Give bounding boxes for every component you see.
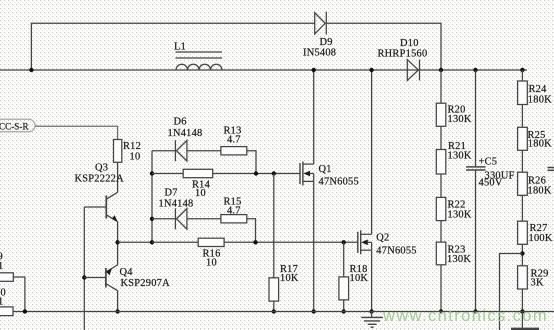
wire R22-R23	[440, 221, 442, 243]
svg-text:1: 1	[0, 297, 3, 308]
resistor R27	[518, 221, 528, 244]
wire Q1 drain to bus	[313, 70, 315, 164]
node R27/R29 feedback junction	[520, 251, 524, 255]
svg-text:130K: 130K	[448, 114, 472, 125]
resistor R26	[518, 172, 528, 195]
node bus / bypass-R20 junction	[439, 68, 443, 72]
wire R20-R21	[440, 126, 442, 149]
svg-text:130K: 130K	[448, 210, 472, 221]
node Q1 drain on bus	[312, 68, 316, 72]
svg-text:450V: 450V	[479, 178, 503, 189]
transistor Q3	[84, 192, 118, 222]
node C5 bottom on bus	[473, 309, 477, 313]
node Q2 drain on bus	[369, 68, 373, 72]
svg-text:10: 10	[195, 188, 206, 199]
wire R21-R22	[440, 174, 442, 197]
wire Q4 collector to bottom bus	[117, 291, 119, 312]
svg-text:4.7: 4.7	[227, 206, 241, 217]
ground main (below Q2 source)	[361, 312, 383, 328]
node R13/R14 junction	[254, 171, 258, 175]
node Q1 source on bottom bus	[312, 309, 316, 313]
wire top branch left	[152, 150, 175, 152]
wire mid branch to Q1 gate	[213, 173, 300, 175]
node bus / C5 junction	[473, 68, 477, 72]
svg-text:180K: 180K	[528, 139, 552, 150]
svg-text:D6: D6	[174, 117, 187, 128]
wire R25-R26	[521, 150, 523, 172]
svg-text:D10: D10	[400, 38, 419, 49]
svg-text:100K: 100K	[529, 233, 553, 244]
wire Q3 emitter to drive node	[117, 222, 119, 243]
node rail-drive junction	[150, 240, 154, 244]
svg-text:130K: 130K	[447, 254, 471, 265]
svg-text:R12: R12	[123, 141, 141, 152]
svg-text:D7: D7	[165, 188, 178, 199]
node bus / R24 junction	[520, 68, 524, 72]
resistor R17 with gate pulldown wire	[273, 174, 275, 278]
wire top bus (output rail y=70)	[0, 69, 527, 71]
resistor R14	[183, 169, 213, 177]
node R17 bottom on bus	[272, 309, 276, 313]
svg-text:47N6055: 47N6055	[319, 177, 359, 188]
wire R29 to bottom bus	[521, 289, 523, 312]
svg-text:Q1: Q1	[319, 164, 332, 175]
resistor R23	[436, 242, 446, 265]
svg-text:180K: 180K	[528, 186, 552, 197]
svg-text:10K: 10K	[350, 273, 369, 284]
wire bypass top (around L1/D10 via D9)	[31, 23, 314, 70]
svg-text:Q3: Q3	[95, 163, 108, 174]
node R18 top junction	[342, 240, 346, 244]
wire D6 to R13	[187, 150, 221, 152]
wire bus to R20	[440, 70, 442, 103]
wire Q2 source to bottom bus	[371, 250, 373, 311]
resistor R25	[518, 127, 528, 150]
resistor R22	[436, 197, 446, 220]
wire mid branch left	[152, 173, 183, 175]
wire base rail (Q3/Q4 bases, goes off bottom edge)	[83, 207, 85, 330]
node rail-mid junction	[150, 171, 154, 175]
diode D7	[175, 208, 187, 229]
svg-text:KSP2907A: KSP2907A	[121, 278, 171, 289]
mosfet Q2	[358, 230, 372, 254]
capacitor at right edge (cut off)	[548, 168, 554, 171]
svg-text:130K: 130K	[448, 151, 472, 162]
wire Q1 source to bottom bus	[313, 181, 315, 311]
node Q1 gate / R17 junction	[272, 171, 276, 175]
resistor R13	[221, 147, 247, 155]
svg-text:D9: D9	[320, 37, 333, 48]
mosfet Q1	[300, 162, 314, 186]
node R9 drop on bus	[23, 309, 27, 313]
svg-text:10: 10	[206, 258, 217, 269]
svg-text:Q4: Q4	[120, 267, 134, 278]
wire Q4 emitter up to drive node	[117, 242, 119, 265]
node Q4 collector on bus	[115, 309, 119, 313]
svg-text:KSP2222A: KSP2222A	[75, 174, 125, 185]
node rail-D7 junction	[150, 217, 154, 221]
svg-text:4.7: 4.7	[227, 135, 241, 146]
wire R23 to bottom bus	[440, 265, 442, 312]
diode D9	[315, 12, 327, 35]
resistor R18 with pulldown wire	[343, 242, 345, 277]
wire bypass right segment down to bus	[326, 23, 441, 70]
wire R13 right down to mid branch	[247, 151, 256, 174]
wire Q2 drain to bus	[371, 70, 373, 234]
node Q4 base junction	[82, 275, 86, 279]
wire R12 to Q3 collector	[117, 162, 119, 192]
transistor Q4	[84, 265, 117, 291]
resistor R16	[198, 238, 224, 246]
resistor R12	[114, 140, 122, 163]
capacitor C5	[466, 70, 486, 312]
resistor R9 (cut at left edge)	[0, 273, 13, 282]
svg-text:1N4148: 1N4148	[159, 199, 194, 210]
diode D6	[175, 140, 187, 161]
node bypass/bus junction	[29, 68, 33, 72]
diode D10	[407, 60, 419, 81]
wire R15 right down to R16 branch	[247, 219, 256, 243]
wire gate network left rail	[151, 151, 153, 243]
node CC-S-R input tag	[0, 119, 35, 132]
svg-text:CC-S-R: CC-S-R	[0, 122, 29, 132]
wire D7 branch left	[152, 218, 175, 220]
wire bottom bus (source/return rail)	[13, 311, 554, 313]
svg-text:IN5408: IN5408	[303, 48, 336, 59]
svg-text:3K: 3K	[531, 278, 544, 289]
wire from CC-S-R tag to R12	[35, 126, 118, 139]
node Q2 source / ground junction	[369, 309, 373, 313]
wire R24-R25	[521, 105, 523, 128]
svg-text:R24: R24	[529, 84, 548, 95]
resistor R20	[436, 103, 446, 126]
node drive output junction	[115, 240, 119, 244]
svg-text:47N6055: 47N6055	[376, 246, 416, 257]
wire feedback tap (goes off bottom edge)	[500, 254, 523, 330]
svg-text:Q2: Q2	[376, 233, 389, 244]
wire D7 to R15	[187, 218, 221, 220]
resistor R21	[436, 150, 446, 175]
resistor R29	[518, 266, 528, 289]
svg-text:10: 10	[130, 152, 141, 163]
ground right (below R29, cut at edge)	[511, 312, 539, 329]
wire R26-R27	[521, 195, 523, 221]
svg-text:180K: 180K	[528, 95, 552, 106]
resistor R24	[518, 81, 528, 105]
wire bus to R24	[521, 70, 523, 81]
wire R27-R29	[521, 244, 523, 265]
svg-text:RHRP1560: RHRP1560	[378, 49, 428, 60]
svg-text:10K: 10K	[280, 273, 299, 284]
resistor R15	[221, 215, 247, 223]
node R29 bottom on bus	[520, 309, 524, 313]
resistor R10 (cut at left edge)	[0, 307, 13, 316]
svg-text:www.cntronics.com: www.cntronics.com	[382, 307, 548, 325]
node R15/R16 junction	[253, 240, 257, 244]
inductor L1	[176, 52, 223, 70]
node R18 bottom on bus	[342, 309, 346, 313]
svg-text:L1: L1	[174, 42, 186, 53]
node R23 bottom on bus	[439, 309, 443, 313]
wire R16 branch left	[152, 241, 198, 243]
svg-text:1N4148: 1N4148	[168, 128, 203, 139]
svg-text:1: 1	[0, 261, 3, 272]
svg-text:+C5: +C5	[479, 157, 498, 168]
wire R9 to bottom bus	[13, 277, 25, 312]
wire R16 to Q2 gate	[224, 241, 358, 243]
wire drive node to gate network rail	[118, 241, 152, 243]
